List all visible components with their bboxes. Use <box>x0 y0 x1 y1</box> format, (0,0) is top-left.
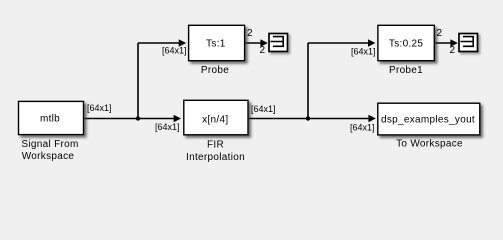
svg-text:[64x1]: [64x1] <box>162 46 187 56</box>
net label [64x1] at Probe1 input <box>351 47 376 57</box>
svg-text:2: 2 <box>247 28 253 39</box>
svg-text:[64x1]: [64x1] <box>87 103 112 113</box>
block FIR Interpolation <box>184 100 248 135</box>
svg-text:Ts:0.25: Ts:0.25 <box>389 38 423 49</box>
svg-text:[64x1]: [64x1] <box>251 104 276 114</box>
label To Workspace <box>396 139 463 150</box>
svg-text:[64x1]: [64x1] <box>351 47 376 57</box>
net label [64x1] at Probe input <box>162 46 187 56</box>
svg-text:Probe: Probe <box>201 65 229 76</box>
junction node (branch to Probe1) <box>306 116 310 120</box>
arrowhead into Terminator T1 <box>260 39 267 46</box>
svg-text:dsp_examples_yout: dsp_examples_yout <box>381 114 475 125</box>
svg-text:[64x1]: [64x1] <box>155 122 180 132</box>
arrowhead into FIR Interpolation <box>174 115 181 122</box>
wire branch vertical up to Probe <box>137 43 139 119</box>
svg-text:Ts:1: Ts:1 <box>206 38 226 49</box>
svg-text:Probe1: Probe1 <box>389 65 423 76</box>
label FIR Interpolation <box>186 140 245 164</box>
wire Probe output to Terminator T1 <box>245 42 262 44</box>
net label [64x1] at To Workspace input <box>350 123 375 133</box>
net label [64x1] at FIR input <box>155 122 180 132</box>
wire mtlb output to FIR Interpolation input <box>84 118 175 120</box>
block To Workspace (dsp_examples_yout) <box>378 103 480 135</box>
junction node (branch to Probe) <box>136 116 140 120</box>
svg-text:Signal From: Signal From <box>21 139 78 150</box>
pin number 2 (Probe1 top output) <box>437 28 443 39</box>
net label [64x1] at FIR output <box>251 104 276 114</box>
svg-text:Interpolation: Interpolation <box>186 152 245 163</box>
svg-text:2: 2 <box>437 28 443 39</box>
svg-text:[64x1]: [64x1] <box>350 123 375 133</box>
pin number 2 (Probe1 bottom) <box>450 45 456 56</box>
wire Probe1 output to Terminator T2 <box>434 42 452 44</box>
terminator T2 <box>459 34 478 52</box>
net label [64x1] at mtlb output <box>87 103 112 113</box>
label Probe1 <box>389 65 423 76</box>
arrowhead into Terminator T2 <box>450 39 457 46</box>
svg-text:2: 2 <box>260 45 266 56</box>
arrowhead into Probe <box>179 39 186 46</box>
wire FIR output to To Workspace input <box>248 118 370 120</box>
label Signal From Workspace <box>21 139 78 162</box>
svg-text:FIR: FIR <box>207 140 224 151</box>
arrowhead into Probe1 <box>368 39 375 46</box>
svg-text:To Workspace: To Workspace <box>396 139 463 150</box>
wire branch horizontal to Probe1 input <box>308 42 369 44</box>
wire branch vertical up to Probe1 <box>307 43 309 119</box>
pin number 2 (Probe top output) <box>247 28 253 39</box>
block Probe <box>189 25 245 60</box>
terminator T1 <box>269 34 288 52</box>
arrowhead into To Workspace <box>368 115 375 122</box>
block Signal From Workspace (mtlb) <box>19 101 84 134</box>
svg-text:x[n/4]: x[n/4] <box>202 114 228 125</box>
wire branch horizontal to Probe input <box>138 42 180 44</box>
svg-text:Workspace: Workspace <box>22 151 75 162</box>
label Probe <box>201 65 229 76</box>
pin number 2 (Probe bottom) <box>260 45 266 56</box>
svg-text:mtlb: mtlb <box>40 113 60 124</box>
block Probe1 <box>378 25 434 60</box>
svg-text:2: 2 <box>450 45 456 56</box>
